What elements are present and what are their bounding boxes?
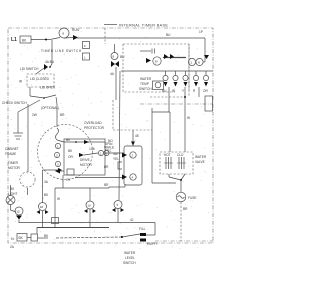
svg-text:4A7: 4A7 — [113, 152, 119, 156]
svg-text:W: W — [187, 116, 190, 120]
svg-text:DRIVE: DRIVE — [80, 158, 90, 162]
svg-text:LID CLOSED: LID CLOSED — [30, 77, 50, 81]
svg-text:CABINET: CABINET — [5, 147, 19, 151]
svg-text:L1: L1 — [11, 37, 17, 43]
svg-text:YEL: YEL — [113, 157, 119, 161]
svg-text:TIMER LINE SWITCH: TIMER LINE SWITCH — [41, 49, 82, 53]
svg-text:BR: BR — [60, 113, 65, 117]
svg-text:WATER: WATER — [195, 155, 207, 159]
svg-text:(OPTIONAL): (OPTIONAL) — [41, 106, 59, 110]
svg-text:N: N — [198, 61, 200, 65]
svg-text:WATER: WATER — [140, 77, 152, 81]
svg-text:W: W — [19, 80, 22, 84]
svg-text:4E: 4E — [135, 134, 139, 138]
svg-text:BR: BR — [104, 183, 109, 187]
svg-text:LID OPEN: LID OPEN — [40, 86, 56, 90]
svg-text:EMPTY: EMPTY — [147, 242, 159, 246]
svg-text:OR: OR — [203, 89, 208, 93]
svg-text:W: W — [57, 197, 60, 201]
svg-text:CHECK SWITCH: CHECK SWITCH — [2, 101, 27, 105]
svg-text:BU: BU — [120, 55, 125, 59]
svg-text:OVERLOAD: OVERLOAD — [84, 121, 102, 125]
svg-text:4J: 4J — [130, 218, 134, 222]
svg-text:MOTOR: MOTOR — [80, 163, 93, 167]
svg-text:1A6: 1A6 — [89, 147, 95, 151]
svg-text:FRAME: FRAME — [5, 152, 16, 156]
svg-text:4A BU: 4A BU — [45, 60, 55, 64]
svg-text:FUSE: FUSE — [188, 196, 197, 200]
svg-text:BR: BR — [104, 165, 109, 169]
svg-text:TIMER: TIMER — [8, 161, 19, 165]
svg-text:SWITCH: SWITCH — [123, 261, 136, 265]
svg-text:MOTOR: MOTOR — [8, 166, 21, 170]
svg-text:10: 10 — [87, 204, 91, 208]
svg-text:LEVEL: LEVEL — [125, 256, 135, 260]
svg-text:18: 18 — [40, 205, 44, 209]
svg-text:FILL: FILL — [139, 227, 146, 231]
svg-text:2W: 2W — [32, 113, 37, 117]
svg-text:W: W — [172, 89, 175, 93]
svg-text:VALVE: VALVE — [195, 160, 205, 164]
svg-text:LID SWITCH: LID SWITCH — [20, 67, 39, 71]
svg-text:TEMP: TEMP — [140, 82, 149, 86]
svg-text:1P: 1P — [199, 30, 203, 34]
svg-text:HOT: HOT — [164, 153, 171, 157]
svg-text:FILL: FILL — [105, 149, 112, 153]
svg-text:WATER: WATER — [124, 251, 136, 255]
svg-text:CLD: CLD — [177, 153, 184, 157]
svg-text:PROTECTOR: PROTECTOR — [84, 126, 105, 130]
svg-text:F: F — [84, 44, 86, 48]
svg-text:BU: BU — [166, 33, 171, 37]
svg-text:RUN: RUN — [72, 28, 80, 32]
svg-text:INTERNAL TIMER BASE: INTERNAL TIMER BASE — [119, 24, 168, 28]
svg-text:N: N — [11, 237, 14, 241]
svg-text:BR: BR — [183, 207, 188, 211]
svg-text:OR: OR — [68, 155, 73, 159]
svg-text:SWITCH: SWITCH — [139, 87, 152, 91]
